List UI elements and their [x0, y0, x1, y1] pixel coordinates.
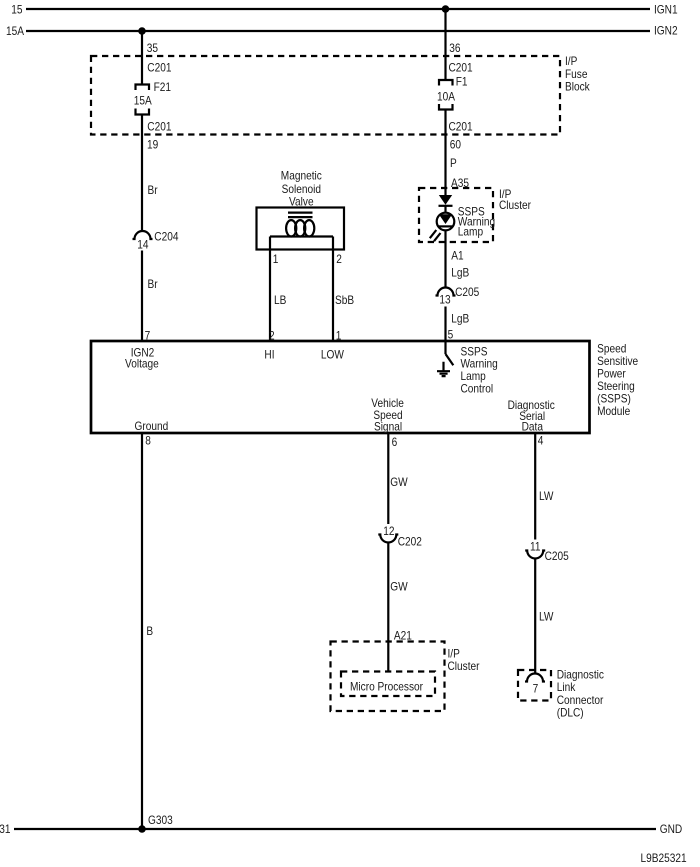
svg-text:2: 2 — [336, 253, 342, 266]
svg-text:B: B — [146, 625, 153, 638]
svg-text:C205: C205 — [545, 550, 569, 563]
svg-text:Micro Processor: Micro Processor — [350, 681, 423, 694]
svg-text:14: 14 — [137, 239, 148, 252]
svg-text:Magnetic: Magnetic — [281, 170, 323, 183]
svg-text:(DLC): (DLC) — [557, 707, 584, 720]
svg-text:Link: Link — [557, 682, 576, 695]
svg-text:C204: C204 — [154, 231, 178, 244]
svg-text:C201: C201 — [449, 121, 473, 134]
svg-text:Connector: Connector — [557, 694, 604, 707]
svg-text:SbB: SbB — [335, 294, 354, 307]
svg-text:6: 6 — [392, 436, 398, 449]
svg-text:LB: LB — [274, 294, 286, 307]
svg-text:60: 60 — [450, 139, 461, 152]
svg-text:15A: 15A — [6, 25, 25, 38]
svg-text:Br: Br — [148, 278, 158, 291]
svg-text:10A: 10A — [437, 91, 456, 104]
svg-text:IGN2: IGN2 — [654, 25, 678, 38]
svg-text:19: 19 — [147, 139, 158, 152]
svg-text:Module: Module — [597, 405, 630, 418]
svg-text:Solenoid: Solenoid — [282, 183, 321, 196]
svg-text:Diagnostic: Diagnostic — [557, 669, 605, 682]
svg-text:11: 11 — [530, 541, 541, 554]
svg-text:7: 7 — [533, 683, 539, 696]
svg-text:Sensitive: Sensitive — [597, 355, 638, 368]
svg-text:C201: C201 — [147, 62, 171, 75]
svg-text:GW: GW — [390, 581, 408, 594]
svg-text:P: P — [450, 157, 457, 170]
svg-text:12: 12 — [383, 525, 394, 538]
svg-text:HI: HI — [264, 349, 274, 362]
svg-text:LW: LW — [539, 611, 554, 624]
svg-text:I/P: I/P — [565, 55, 577, 68]
svg-text:Control: Control — [461, 383, 494, 396]
svg-text:G303: G303 — [148, 814, 173, 827]
svg-text:Lamp: Lamp — [461, 370, 486, 383]
svg-text:15A: 15A — [134, 95, 153, 108]
svg-text:Fuse: Fuse — [565, 68, 587, 81]
svg-text:8: 8 — [145, 435, 151, 448]
svg-text:Lamp: Lamp — [458, 226, 483, 239]
svg-text:Ground: Ground — [135, 420, 169, 433]
svg-text:13: 13 — [439, 294, 450, 307]
svg-text:C205: C205 — [455, 286, 479, 299]
svg-text:Br: Br — [148, 184, 158, 197]
svg-text:L9B25321: L9B25321 — [641, 852, 687, 865]
svg-text:LgB: LgB — [451, 313, 469, 326]
svg-text:F1: F1 — [456, 76, 468, 89]
svg-text:Power: Power — [597, 368, 626, 381]
svg-text:Block: Block — [565, 81, 590, 94]
svg-text:LOW: LOW — [321, 349, 345, 362]
svg-text:4: 4 — [538, 435, 544, 448]
svg-text:36: 36 — [449, 42, 460, 55]
svg-text:15: 15 — [11, 4, 22, 17]
svg-text:Data: Data — [522, 421, 544, 434]
svg-text:C201: C201 — [449, 62, 473, 75]
svg-text:Signal: Signal — [374, 421, 402, 434]
svg-text:Cluster: Cluster — [448, 661, 480, 674]
svg-text:I/P: I/P — [448, 648, 460, 661]
svg-text:GND: GND — [660, 823, 683, 836]
svg-text:Steering: Steering — [597, 380, 635, 393]
svg-text:GW: GW — [390, 476, 408, 489]
svg-text:F21: F21 — [154, 81, 171, 94]
svg-text:Voltage: Voltage — [125, 358, 159, 371]
svg-text:IGN1: IGN1 — [654, 4, 678, 17]
svg-text:A1: A1 — [451, 250, 463, 263]
svg-text:1: 1 — [273, 253, 279, 266]
svg-text:C201: C201 — [147, 121, 171, 134]
svg-text:Warning: Warning — [461, 358, 498, 371]
svg-text:Cluster: Cluster — [499, 199, 531, 212]
svg-text:LgB: LgB — [451, 267, 469, 280]
svg-text:31: 31 — [0, 823, 10, 836]
svg-text:LW: LW — [539, 490, 554, 503]
svg-text:Speed: Speed — [597, 343, 626, 356]
svg-text:C202: C202 — [398, 536, 422, 549]
svg-text:(SSPS): (SSPS) — [597, 393, 631, 406]
svg-text:35: 35 — [147, 42, 158, 55]
svg-text:SSPS: SSPS — [461, 346, 488, 359]
